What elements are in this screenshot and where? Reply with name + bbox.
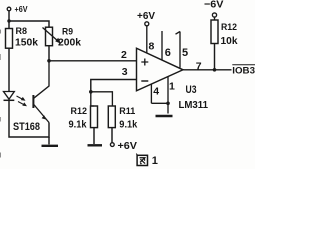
pin 6 stub xyxy=(161,31,163,60)
ground (pin 1) xyxy=(156,115,173,117)
svg-text:+6V: +6V xyxy=(118,141,138,152)
pin 5 stub xyxy=(176,32,181,68)
node pin1/pin4 xyxy=(166,102,170,106)
wire output pin 7 xyxy=(183,69,232,71)
node junction of R8/R9 top xyxy=(7,19,10,22)
wire pin4 to pin1 xyxy=(151,102,168,104)
svg-text:4: 4 xyxy=(153,85,159,97)
wire junction to R9 top xyxy=(9,21,49,27)
resistor R9 (adjustable) xyxy=(43,27,82,49)
svg-text:R12: R12 xyxy=(71,106,88,117)
net IOB3 (active low) xyxy=(232,65,255,77)
svg-text:+6V: +6V xyxy=(137,11,155,22)
optocoupler ST168 package outline and label xyxy=(9,100,49,137)
node junction collector / pin2 xyxy=(47,59,51,63)
phototransistor of ST168 xyxy=(33,95,49,123)
wire R9 bottom to node xyxy=(48,46,50,61)
svg-text:10k: 10k xyxy=(221,35,238,47)
+6V supply terminal (pin 8) xyxy=(137,11,155,26)
svg-text:IOB3: IOB3 xyxy=(232,66,255,77)
wire collector up to node xyxy=(34,61,49,98)
svg-text:9.1k: 9.1k xyxy=(69,118,87,130)
svg-text:6: 6 xyxy=(165,47,171,59)
resistor R12 (10k pull-up) xyxy=(211,17,238,47)
resistor R12 (9.1k) xyxy=(69,92,98,131)
resistor R11 xyxy=(108,106,137,130)
svg-text:7: 7 xyxy=(196,61,202,73)
ground (R12 bottom) xyxy=(88,128,103,146)
-6V supply terminal xyxy=(204,0,224,17)
svg-text:2: 2 xyxy=(121,49,127,61)
svg-text:−6V: −6V xyxy=(204,0,224,11)
svg-text:1: 1 xyxy=(169,81,175,93)
svg-text:U3: U3 xyxy=(186,84,197,96)
light arrows xyxy=(17,96,28,106)
wire R12 to output node xyxy=(214,44,216,70)
svg-text:LM311: LM311 xyxy=(179,99,209,111)
wire from +6V terminal down to junction xyxy=(8,11,10,21)
wire pin 3 to divider xyxy=(91,80,137,92)
+6V supply terminal (left) xyxy=(7,4,28,14)
wire pin 8 xyxy=(146,26,148,53)
wire divider junction to R11 xyxy=(91,92,113,106)
svg-text:1: 1 xyxy=(152,155,158,167)
svg-text:R12: R12 xyxy=(221,22,237,33)
caption 图1 xyxy=(136,154,158,167)
op-amp U3 LM311 triangle xyxy=(137,48,209,111)
ground (emitter of ST168) xyxy=(42,137,59,146)
node divider junction xyxy=(89,90,93,94)
svg-text:3: 3 xyxy=(122,66,128,78)
node output xyxy=(213,68,217,72)
svg-text:+6V: +6V xyxy=(15,4,28,14)
svg-text:5: 5 xyxy=(182,47,188,59)
+6V terminal (R11 bottom) xyxy=(110,128,137,152)
resistor R8 xyxy=(6,21,39,48)
svg-text:8: 8 xyxy=(149,41,155,53)
pin 4 stub xyxy=(150,84,152,103)
pin 1 stub xyxy=(167,77,169,114)
scan edge marks xyxy=(0,30,1,158)
svg-text:150k: 150k xyxy=(15,36,38,48)
wire node to pin 2 of U3 xyxy=(49,60,137,62)
svg-text:R11: R11 xyxy=(119,106,136,117)
wire R8 bottom to LED anode xyxy=(8,48,10,92)
svg-text:9.1k: 9.1k xyxy=(119,118,137,130)
svg-text:ST168: ST168 xyxy=(13,121,40,133)
svg-text:200k: 200k xyxy=(58,37,81,49)
LED of optocoupler ST168 xyxy=(4,92,15,101)
